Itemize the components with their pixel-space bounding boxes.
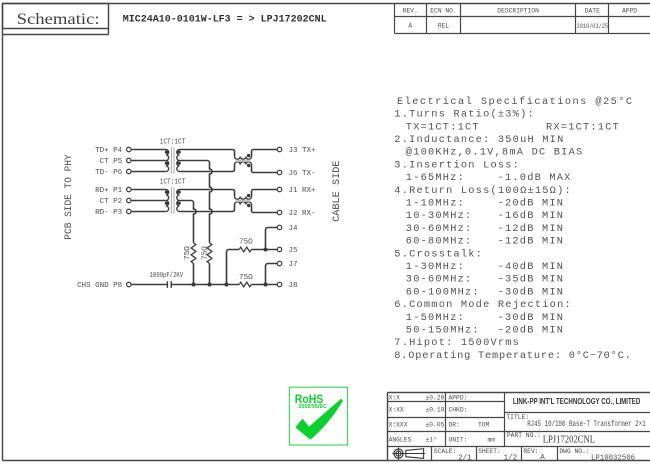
svg-text:1-50MHz:: 1-50MHz: [406, 312, 465, 324]
svg-text:±0.10: ±0.10 [426, 407, 445, 414]
svg-text:1/2: 1/2 [504, 454, 518, 462]
svg-text:75Ω: 75Ω [184, 246, 192, 260]
svg-text:RJ45 10/100 Base-T Transformer: RJ45 10/100 Base-T Transformer 2×1 [527, 420, 646, 429]
svg-text:-16dB MIN: -16dB MIN [498, 210, 565, 222]
svg-text:30-60MHz:: 30-60MHz: [406, 223, 473, 235]
svg-text:1.Turns Ratio(±3%):: 1.Turns Ratio(±3%): [394, 109, 535, 121]
svg-text:2/1: 2/1 [458, 454, 472, 462]
svg-text:ANGLES: ANGLES [389, 436, 412, 443]
svg-text:SCALE:: SCALE: [434, 448, 457, 455]
svg-text:J4: J4 [289, 225, 299, 233]
svg-text:10-30MHz:: 10-30MHz: [406, 210, 473, 222]
svg-text:REV:: REV: [523, 448, 538, 455]
svg-text:APPD:: APPD: [449, 395, 468, 402]
svg-text:4.Return Loss(100Ω±15Ω):: 4.Return Loss(100Ω±15Ω): [394, 185, 572, 197]
svg-text:PCB SIDE TO PHY: PCB SIDE TO PHY [64, 154, 75, 239]
svg-text:-40dB MIN: -40dB MIN [498, 261, 565, 273]
svg-text:A: A [540, 454, 545, 462]
svg-text:75Ω: 75Ω [239, 238, 253, 246]
svg-text:75Ω: 75Ω [202, 246, 210, 260]
svg-text:5.Crosstalk:: 5.Crosstalk: [394, 248, 483, 260]
svg-text:75Ω: 75Ω [239, 274, 253, 282]
svg-text:@100KHz,0.1V,8mA DC BIAS: @100KHz,0.1V,8mA DC BIAS [406, 147, 584, 159]
svg-text:-12dB MIN: -12dB MIN [498, 236, 565, 248]
svg-text:PART NO.:: PART NO.: [507, 432, 541, 439]
svg-text:CABLE SIDE: CABLE SIDE [332, 161, 343, 222]
svg-text:J2 RX-: J2 RX- [289, 210, 316, 218]
svg-text:Electrical Specifications @25°: Electrical Specifications @25°C [397, 96, 634, 108]
svg-text:6.Common Mode Rejection:: 6.Common Mode Rejection: [394, 299, 572, 311]
svg-text:X:X: X:X [389, 395, 401, 402]
svg-text:J6 TX-: J6 TX- [289, 170, 316, 178]
svg-text:2010/03/25: 2010/03/25 [577, 23, 609, 30]
svg-text:±1°: ±1° [426, 435, 437, 443]
svg-text:-20dB MIN: -20dB MIN [498, 325, 565, 337]
svg-text:MIC24A10-0101W-LF3 = > LPJ172: MIC24A10-0101W-LF3 = > LPJ17202CNL [123, 15, 327, 26]
svg-text:TX=1CT:1CT: TX=1CT:1CT [406, 121, 480, 133]
svg-text:A: A [408, 22, 412, 29]
svg-text:3.Insertion Loss:: 3.Insertion Loss: [394, 159, 520, 171]
svg-text:TITLE:: TITLE: [506, 414, 529, 421]
svg-text:LPJ17202CNL: LPJ17202CNL [543, 435, 595, 446]
svg-text:RX=1CT:1CT: RX=1CT:1CT [546, 121, 620, 133]
svg-text:2.Inductance: 350uH MIN: 2.Inductance: 350uH MIN [394, 134, 564, 146]
svg-text:SHEET:: SHEET: [478, 448, 501, 455]
svg-text:8.Operating Temperature: 0°C~7: 8.Operating Temperature: 0°C~70°C. [394, 350, 631, 362]
svg-text:-30dB MIN: -30dB MIN [498, 312, 565, 324]
svg-text:30-60MHz:: 30-60MHz: [406, 274, 473, 286]
svg-text:RD+ P1: RD+ P1 [95, 187, 123, 195]
svg-text:J1 RX+: J1 RX+ [289, 187, 317, 195]
svg-text:CHS GND P8: CHS GND P8 [77, 282, 122, 290]
svg-text:DWG NO.:: DWG NO.: [559, 448, 589, 455]
svg-text:APPD: APPD [622, 7, 637, 14]
svg-text:1CT:1CT: 1CT:1CT [160, 138, 186, 146]
svg-text:-30dB MIN: -30dB MIN [498, 286, 565, 298]
svg-text:1000pF/2KV: 1000pF/2KV [150, 272, 184, 280]
svg-text:X:XX: X:XX [389, 407, 404, 414]
svg-text:TD- P6: TD- P6 [95, 169, 123, 177]
svg-text:X:XXX: X:XXX [389, 422, 408, 429]
svg-text:RD- P3: RD- P3 [95, 209, 123, 217]
svg-text:CT P2: CT P2 [100, 198, 123, 206]
svg-text:-1.0dB MAX: -1.0dB MAX [498, 172, 572, 184]
svg-text:±0.20: ±0.20 [426, 395, 445, 402]
svg-text:1-10MHz:: 1-10MHz: [406, 198, 465, 210]
svg-text:ECN NO.: ECN NO. [430, 7, 456, 14]
svg-text:Schematic:: Schematic: [17, 11, 100, 28]
svg-text:7.Hipot: 1500Vrms: 7.Hipot: 1500Vrms [394, 337, 520, 349]
svg-text:LP10032506: LP10032506 [591, 454, 635, 462]
svg-text:-12dB MIN: -12dB MIN [498, 223, 565, 235]
svg-text:UNIT:: UNIT: [449, 436, 468, 443]
svg-text:mm: mm [488, 436, 496, 443]
svg-text:2002/95/EC: 2002/95/EC [298, 404, 327, 410]
svg-text:REV.: REV. [403, 7, 418, 14]
svg-text:J5: J5 [289, 247, 299, 255]
svg-text:TOM: TOM [478, 422, 490, 429]
svg-text:REL: REL [438, 22, 450, 29]
svg-text:DATE: DATE [585, 7, 600, 14]
svg-text:DR:: DR: [449, 422, 460, 429]
svg-text:TD+ P4: TD+ P4 [95, 147, 123, 155]
svg-text:60-100MHz:: 60-100MHz: [406, 286, 480, 298]
svg-text:60-80MHz:: 60-80MHz: [406, 236, 473, 248]
svg-text:J7: J7 [289, 261, 298, 269]
svg-text:1-65MHz:: 1-65MHz: [406, 172, 465, 184]
svg-text:J8: J8 [289, 282, 298, 290]
svg-text:J3 TX+: J3 TX+ [289, 147, 317, 155]
svg-text:-20dB MIN: -20dB MIN [498, 198, 565, 210]
svg-text:CT P5: CT P5 [100, 158, 123, 166]
svg-text:±0.05: ±0.05 [426, 422, 445, 429]
svg-text:50-150MHz:: 50-150MHz: [406, 325, 480, 337]
svg-text:LINK-PP INT'L TECHNOLOGY CO.,: LINK-PP INT'L TECHNOLOGY CO., LIMITED [513, 397, 641, 406]
svg-text:CHKD:: CHKD: [449, 407, 468, 414]
svg-text:-35dB MIN: -35dB MIN [498, 274, 565, 286]
svg-text:1-30MHz:: 1-30MHz: [406, 261, 465, 273]
svg-text:1CT:1CT: 1CT:1CT [160, 178, 186, 186]
svg-text:DESCRIPTION: DESCRIPTION [497, 7, 539, 14]
